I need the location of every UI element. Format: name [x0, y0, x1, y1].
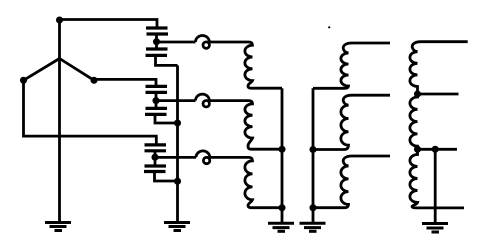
winding W4 section 3 [410, 149, 464, 208]
capacitor C2B [145, 108, 167, 114]
wire wye branch right [60, 59, 95, 81]
wire capacitor ground bus [176, 65, 179, 222]
node bus junction 2 [174, 119, 181, 126]
capacitor C3A [145, 145, 167, 151]
wire secondary bus [312, 88, 315, 222]
wire phase B to capacitor string 2 [94, 79, 156, 86]
wire wye branch left [24, 59, 60, 81]
wire W4 tap 2 terminal [418, 148, 458, 151]
node bus junction 3 [174, 178, 181, 185]
node W4 tap 2 [414, 146, 421, 153]
node tap 3 [151, 154, 158, 161]
node secondary bus junction 3 [309, 204, 316, 211]
node tap 2 [152, 97, 159, 104]
wire C1B bottom to ground bus [156, 55, 178, 65]
wire W4 ground stem [434, 149, 437, 222]
wire tap1 to fuse F1 [157, 41, 196, 44]
winding S1 [313, 43, 390, 88]
node W4 tap 1 [414, 90, 421, 97]
wire C2B bottom to ground bus [155, 114, 178, 123]
winding W4 section 2 [410, 94, 418, 149]
inductor L1 [209, 42, 282, 88]
wire C1A to C1B [155, 34, 158, 49]
node primary bus junction 2 [278, 146, 285, 153]
capacitor C1B [146, 49, 168, 55]
node A [56, 16, 63, 23]
fuse F1 [196, 35, 210, 48]
wire phase C to capacitor string 3 [24, 80, 157, 145]
wire primary bus [281, 88, 284, 222]
capacitor C2A [146, 86, 168, 92]
fuse F2 [196, 94, 210, 107]
wire wye vertical to ground [58, 20, 61, 222]
winding S2 [313, 95, 390, 149]
ground G1 [45, 223, 71, 231]
speck artifact [328, 26, 330, 28]
node W4 ground junction [432, 146, 439, 153]
capacitor C1A [146, 28, 168, 34]
wire C2A to C2B [155, 92, 158, 108]
fuse F3 [196, 151, 210, 164]
node C [20, 77, 27, 84]
node B [90, 77, 97, 84]
node secondary bus junction 2 [309, 146, 316, 153]
winding W4 section 1 [410, 42, 468, 94]
winding S3 [313, 156, 390, 208]
wire C3B bottom to ground bus [155, 172, 178, 182]
ground G5 [422, 224, 448, 233]
wire W4 tap 1 terminal [418, 93, 459, 96]
wire tap2 to fuse F2 [156, 99, 196, 102]
inductor L3 [210, 157, 283, 207]
inductor L2 [209, 101, 282, 150]
node tap 1 [153, 38, 160, 45]
wire tap3 to fuse F3 [155, 156, 196, 159]
ground G4 [300, 223, 326, 231]
ground G3 [268, 223, 294, 231]
wire C3A to C3B [154, 151, 157, 166]
ground G2 [164, 223, 190, 231]
wire phase A to capacitor string 1 [60, 20, 158, 29]
node primary bus junction 3 [278, 204, 285, 211]
capacitor C3B [144, 166, 166, 172]
